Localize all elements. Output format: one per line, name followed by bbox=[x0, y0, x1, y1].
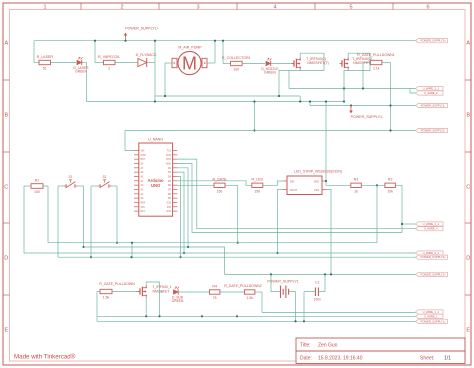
svg-text:100: 100 bbox=[233, 68, 239, 72]
resistor R_GATE bbox=[214, 183, 225, 187]
svg-text:1: 1 bbox=[43, 5, 46, 11]
svg-text:Zen Gun: Zen Gun bbox=[318, 343, 338, 349]
wire left drop to R_LASER bbox=[33, 41, 35, 63]
svg-text:NMOSFET(T): NMOSFET(T) bbox=[307, 61, 329, 65]
resistor R_COLLECTOR1 bbox=[231, 61, 243, 65]
wire rail A to flag U_WIRE_1 bbox=[97, 315, 416, 317]
net flag POWER_SUPPLY2- bbox=[416, 128, 448, 132]
wire T_IRF540_1 legs to rail bbox=[145, 298, 147, 317]
LED D_LASER GREEN bbox=[77, 60, 82, 65]
svg-text:A: A bbox=[466, 41, 470, 47]
wire drop to R_VAPECOIL bbox=[94, 41, 96, 63]
svg-text:R_LED: R_LED bbox=[252, 178, 264, 182]
LED D_SUB GREEN bbox=[173, 290, 178, 295]
wire nano to R_LED bbox=[177, 181, 252, 185]
wire R1 left leg bbox=[24, 185, 31, 187]
wire battery right leg bbox=[289, 292, 296, 322]
svg-text:C: C bbox=[466, 185, 470, 191]
svg-text:U_WIRE_4_1: U_WIRE_4_1 bbox=[423, 222, 440, 226]
svg-text:GND: GND bbox=[141, 155, 146, 157]
wire T_IRF540(2) source branch bbox=[288, 70, 290, 88]
svg-text:3: 3 bbox=[196, 5, 199, 11]
resistor R3 bbox=[351, 183, 362, 187]
wire long VIN net to POWER_SUPPLY2- flag bbox=[125, 130, 416, 132]
wire to flag U_WIRE_4_1 bbox=[402, 223, 416, 225]
svg-text:RST: RST bbox=[141, 159, 146, 161]
svg-text:R_GATE: R_GATE bbox=[212, 178, 227, 182]
net flag U_WIRE_4_1 bbox=[416, 222, 444, 226]
svg-text:2: 2 bbox=[108, 67, 110, 71]
power supply 1+ arrow bbox=[125, 35, 127, 41]
svg-text:R2: R2 bbox=[388, 178, 393, 182]
wire R_LASER to D_LASER bbox=[51, 62, 77, 64]
wire rail jog down bbox=[309, 102, 311, 106]
net flag U_WIRE_4 bbox=[416, 227, 444, 231]
wire rail B to flag POWER_SUPPLY1+ bbox=[97, 320, 416, 322]
wire R_GATE_PULLDOWN to T_IRF540_1 gate bbox=[112, 291, 140, 293]
net flag U_WIRE_2_1 bbox=[416, 86, 444, 90]
svg-text:U_WIRE_1_1: U_WIRE_1_1 bbox=[423, 310, 440, 314]
wire VDD to R3 bbox=[326, 184, 351, 186]
svg-text:DOUT: DOUT bbox=[290, 189, 298, 192]
net flag U_WIRE_1_1 bbox=[416, 310, 444, 314]
wire VSS down to bottom rail bbox=[326, 190, 331, 275]
svg-text:R3: R3 bbox=[354, 178, 359, 182]
wire R1 right leg bbox=[43, 185, 48, 187]
svg-text:15.8.2023, 19:16:40: 15.8.2023, 19:16:40 bbox=[318, 356, 363, 362]
wire rail y251 to flag U_WIRE_5_1 bbox=[24, 252, 416, 254]
svg-text:C1: C1 bbox=[315, 281, 319, 285]
wire vertical at 155 bbox=[154, 41, 156, 102]
svg-text:D13: D13 bbox=[141, 211, 146, 213]
svg-text:M_AIR_PUMP: M_AIR_PUMP bbox=[178, 46, 202, 50]
row ticks left/right bbox=[3, 79, 10, 81]
net flag U_WIRE_5_1 bbox=[416, 251, 444, 255]
svg-text:D_FLYBACK: D_FLYBACK bbox=[136, 53, 157, 57]
wire R_GATE wrap route bbox=[225, 185, 238, 242]
svg-text:DIN: DIN bbox=[290, 180, 295, 183]
wire S1 left leg bbox=[58, 185, 64, 187]
svg-text:POWER_SUPPLY2+: POWER_SUPPLY2+ bbox=[421, 39, 447, 43]
svg-text:1.5k: 1.5k bbox=[103, 296, 110, 300]
svg-text:A: A bbox=[4, 41, 8, 47]
wire riser to VIN net bbox=[253, 102, 255, 131]
svg-text:S2: S2 bbox=[103, 175, 107, 179]
wire vertical x132 bbox=[131, 243, 133, 258]
svg-text:B: B bbox=[466, 113, 470, 119]
wire bottom top-rail to POWER_SUPPLY2+ flag bbox=[225, 273, 416, 275]
wire D_SUB to R4 bbox=[179, 291, 211, 293]
resistor R_LASER bbox=[39, 60, 51, 64]
wire top rail bbox=[34, 40, 416, 42]
net flag POWER_SUPPLY1+ bbox=[416, 319, 448, 323]
wire R_COLLECTOR1 to D_NOZZLE bbox=[242, 63, 265, 65]
wire D_NOZZLE to T_IRF540 gate bbox=[271, 63, 294, 65]
svg-text:POWER_SUPPLY3+: POWER_SUPPLY3+ bbox=[421, 255, 447, 259]
wire T_IRF540(3) leg down to return rail bbox=[343, 89, 345, 102]
svg-text:R1: R1 bbox=[35, 178, 40, 182]
svg-text:GREEN: GREEN bbox=[172, 299, 184, 303]
svg-text:1/1: 1/1 bbox=[444, 356, 451, 362]
wire rail a jog down bbox=[299, 96, 301, 102]
wire T_IRF540(2) source to return rail bbox=[279, 70, 300, 96]
svg-text:2: 2 bbox=[120, 5, 123, 11]
wire rail y242 bbox=[48, 242, 377, 244]
svg-text:10k: 10k bbox=[387, 190, 393, 194]
svg-text:1.5k: 1.5k bbox=[246, 296, 253, 300]
wire stub to flag U_WIRE_2 bbox=[410, 89, 416, 94]
svg-text:GND: GND bbox=[166, 163, 171, 165]
svg-text:RST: RST bbox=[166, 159, 171, 161]
svg-text:D: D bbox=[466, 256, 470, 262]
wire T_IRF540(3) source to U_WIRE flags bbox=[344, 70, 348, 88]
net flag POWER_SUPPLY2+ bbox=[416, 39, 448, 43]
svg-text:R4: R4 bbox=[212, 284, 217, 288]
wire motor left leg bbox=[165, 62, 172, 64]
svg-text:B: B bbox=[4, 113, 8, 119]
svg-text:R_GATE_PULLDOWN1: R_GATE_PULLDOWN1 bbox=[357, 53, 395, 57]
wire VIN loop to U_NANO bbox=[125, 131, 134, 151]
svg-text:6: 6 bbox=[426, 5, 429, 11]
junction dot source rail bbox=[362, 87, 364, 89]
svg-text:100: 100 bbox=[34, 190, 40, 194]
svg-text:POWER_SUPPLY2-: POWER_SUPPLY2- bbox=[421, 129, 446, 133]
svg-text:RX0: RX0 bbox=[166, 155, 171, 157]
wire R_GATE_PULLDOWN1 right leg bbox=[382, 62, 391, 64]
svg-text:150: 150 bbox=[217, 190, 223, 194]
svg-text:NMOSFET: NMOSFET bbox=[152, 290, 170, 294]
transistor T_IRF540(3) NMOSFET bbox=[340, 63, 343, 65]
return rail a bbox=[155, 95, 300, 97]
resistor R_LED bbox=[252, 183, 263, 187]
svg-text:R_GATE_PULLDOWN: R_GATE_PULLDOWN bbox=[99, 282, 135, 286]
wire D_LASER down to return rail bbox=[82, 62, 87, 64]
wire drop to R_COLLECTOR1 bbox=[222, 41, 224, 64]
wire R_GATE_PULLDOWN2 right leg bbox=[255, 291, 262, 293]
wire nano D fan route 3 bbox=[177, 168, 224, 275]
svg-text:POWER_SUPPLY2+: POWER_SUPPLY2+ bbox=[421, 272, 447, 276]
svg-text:D: D bbox=[4, 256, 8, 262]
svg-text:VDD: VDD bbox=[314, 180, 319, 183]
resistor R4 bbox=[209, 290, 220, 294]
wire R4 to R_GATE_PULLDOWN2 bbox=[220, 291, 245, 293]
svg-text:TX1: TX1 bbox=[167, 151, 172, 153]
svg-text:U_NANO: U_NANO bbox=[148, 138, 163, 142]
svg-text:100n: 100n bbox=[314, 298, 321, 302]
svg-text:T_IRF540_1: T_IRF540_1 bbox=[152, 285, 172, 289]
LED D_NOZZLE GREEN bbox=[266, 61, 271, 66]
wire to POWER_SUPPLY1- flag bbox=[310, 105, 416, 107]
wire S2 right leg bbox=[112, 185, 118, 187]
svg-text:T_IRF540(2): T_IRF540(2) bbox=[306, 57, 326, 61]
svg-text:VIN: VIN bbox=[141, 151, 145, 153]
svg-text:E: E bbox=[4, 328, 8, 334]
svg-text:5V: 5V bbox=[141, 163, 144, 165]
svg-text:U_WIRE_4: U_WIRE_4 bbox=[424, 227, 438, 231]
svg-text:D12: D12 bbox=[167, 211, 172, 213]
net flag U_WIRE_1 bbox=[416, 314, 444, 318]
wire S1 right leg bbox=[78, 185, 84, 187]
svg-text:U_WIRE_1: U_WIRE_1 bbox=[424, 314, 438, 318]
net flag U_WIRE_2 bbox=[416, 91, 444, 95]
wire nano to R_GATE bbox=[177, 184, 214, 186]
wire VDD riser bbox=[325, 102, 327, 186]
wire C1 right leg bbox=[318, 291, 325, 293]
svg-text:POWER_SUPPLY1+: POWER_SUPPLY1+ bbox=[421, 319, 447, 323]
svg-text:3V3: 3V3 bbox=[141, 207, 146, 209]
wire DOUT drop bbox=[278, 190, 284, 254]
svg-text:Title:: Title: bbox=[300, 343, 311, 349]
wire to flag U_WIRE_1_1 bbox=[262, 312, 416, 314]
wire motor right leg bbox=[207, 62, 215, 64]
svg-text:5: 5 bbox=[349, 5, 352, 11]
wire nano D fan route 2 bbox=[177, 163, 402, 232]
power supply 1- arrow bbox=[350, 106, 352, 112]
svg-text:U_WIRE_2: U_WIRE_2 bbox=[424, 91, 438, 95]
svg-text:UNO: UNO bbox=[151, 183, 161, 188]
U_NANO pins right bbox=[173, 150, 178, 152]
resistor R2 bbox=[385, 183, 396, 187]
svg-text:Made with Tinkercad®: Made with Tinkercad® bbox=[14, 354, 76, 361]
svg-text:M: M bbox=[182, 53, 197, 73]
wire loop around T_IRF540(2) bbox=[300, 53, 324, 70]
svg-text:POWER_SUPPLY1: POWER_SUPPLY1 bbox=[267, 280, 299, 284]
wire S2 left leg bbox=[91, 185, 98, 187]
wire nano D fan route 5 bbox=[177, 176, 180, 257]
svg-text:1.1k: 1.1k bbox=[373, 67, 380, 71]
return rail b bbox=[87, 101, 345, 103]
wire R_LED to DIN bbox=[263, 181, 283, 185]
svg-text:S1: S1 bbox=[69, 175, 73, 179]
svg-text:VSS: VSS bbox=[314, 189, 319, 192]
svg-text:GREEN: GREEN bbox=[75, 70, 87, 74]
wire nano D fan route 4 bbox=[177, 172, 184, 253]
wire R_GATE_PULLDOWN1 left leg bbox=[363, 62, 371, 64]
title block bbox=[296, 338, 465, 364]
svg-text:Sheet:: Sheet: bbox=[420, 356, 434, 362]
svg-text:U_WIRE_5_1: U_WIRE_5_1 bbox=[423, 251, 440, 255]
wire battery left leg bbox=[271, 274, 281, 291]
svg-text:POWER_SUPPLY1-: POWER_SUPPLY1- bbox=[421, 104, 446, 108]
wire R3 to R2 bbox=[361, 184, 385, 186]
column ticks top bbox=[80, 3, 82, 10]
wire U_WIRE net horizontal bbox=[289, 88, 416, 90]
svg-text:D10: D10 bbox=[167, 202, 172, 204]
svg-text:REF: REF bbox=[141, 202, 146, 204]
svg-text:U_WIRE_2_1: U_WIRE_2_1 bbox=[423, 87, 440, 91]
net flag POWER_SUPPLY1- bbox=[416, 103, 448, 107]
transistor T_IRF540_1 NMOSFET bbox=[138, 291, 141, 293]
junction dots top rail bbox=[94, 40, 96, 42]
svg-text:51: 51 bbox=[43, 67, 47, 71]
svg-text:330: 330 bbox=[254, 190, 260, 194]
wire D_FLYBACK to vertical bbox=[147, 62, 155, 64]
net flag POWER_SUPPLY3+ bbox=[416, 255, 448, 259]
svg-text:C: C bbox=[4, 185, 8, 191]
transistor T_IRF540(2) NMOSFET bbox=[292, 63, 295, 65]
svg-text:75: 75 bbox=[213, 296, 217, 300]
svg-text:GREEN: GREEN bbox=[264, 71, 276, 75]
wire R2 right leg bbox=[396, 185, 403, 232]
svg-text:LED_STRIP_WS2812B(X32N): LED_STRIP_WS2812B(X32N) bbox=[294, 170, 342, 174]
svg-text:Date:: Date: bbox=[300, 356, 312, 362]
wire loop around T_IRF540(3) bbox=[348, 53, 370, 70]
svg-text:POWER_SUPPLY1+: POWER_SUPPLY1+ bbox=[125, 27, 159, 31]
wire R2 left leg down bbox=[376, 185, 378, 242]
net flag POWER_SUPPLY2+b bbox=[416, 272, 448, 276]
svg-text:R_LASER: R_LASER bbox=[37, 55, 54, 59]
resistor R_VAPECOIL bbox=[104, 60, 116, 64]
resistor R1 bbox=[31, 184, 43, 189]
wire R_VAPECOIL to D_FLYBACK bbox=[115, 62, 138, 64]
svg-text:D11: D11 bbox=[167, 207, 172, 209]
svg-text:POWER_SUPPLY1-: POWER_SUPPLY1- bbox=[351, 115, 384, 119]
U_NANO pins left bbox=[134, 150, 139, 152]
svg-text:T_IRF540(3): T_IRF540(3) bbox=[352, 57, 372, 61]
svg-text:4: 4 bbox=[273, 5, 276, 11]
wire rail y247 extension bbox=[84, 246, 189, 248]
svg-text:R_COLLECTOR1: R_COLLECTOR1 bbox=[222, 56, 251, 60]
wire loop around T_IRF540_1 bbox=[146, 282, 163, 292]
svg-text:1k: 1k bbox=[354, 190, 358, 194]
wire nano D fan route 1 bbox=[177, 159, 415, 229]
svg-text:E: E bbox=[466, 328, 470, 334]
svg-text:R_GATE_PULLDOWN2: R_GATE_PULLDOWN2 bbox=[224, 284, 262, 288]
wire C1 left leg bbox=[304, 291, 315, 293]
wire rail y255 to flag POWER_SUPPLY3+ bbox=[58, 256, 416, 258]
wire R_GATE_PULLDOWN left leg bbox=[97, 291, 100, 293]
svg-text:R_VAPECOIL: R_VAPECOIL bbox=[98, 55, 120, 59]
